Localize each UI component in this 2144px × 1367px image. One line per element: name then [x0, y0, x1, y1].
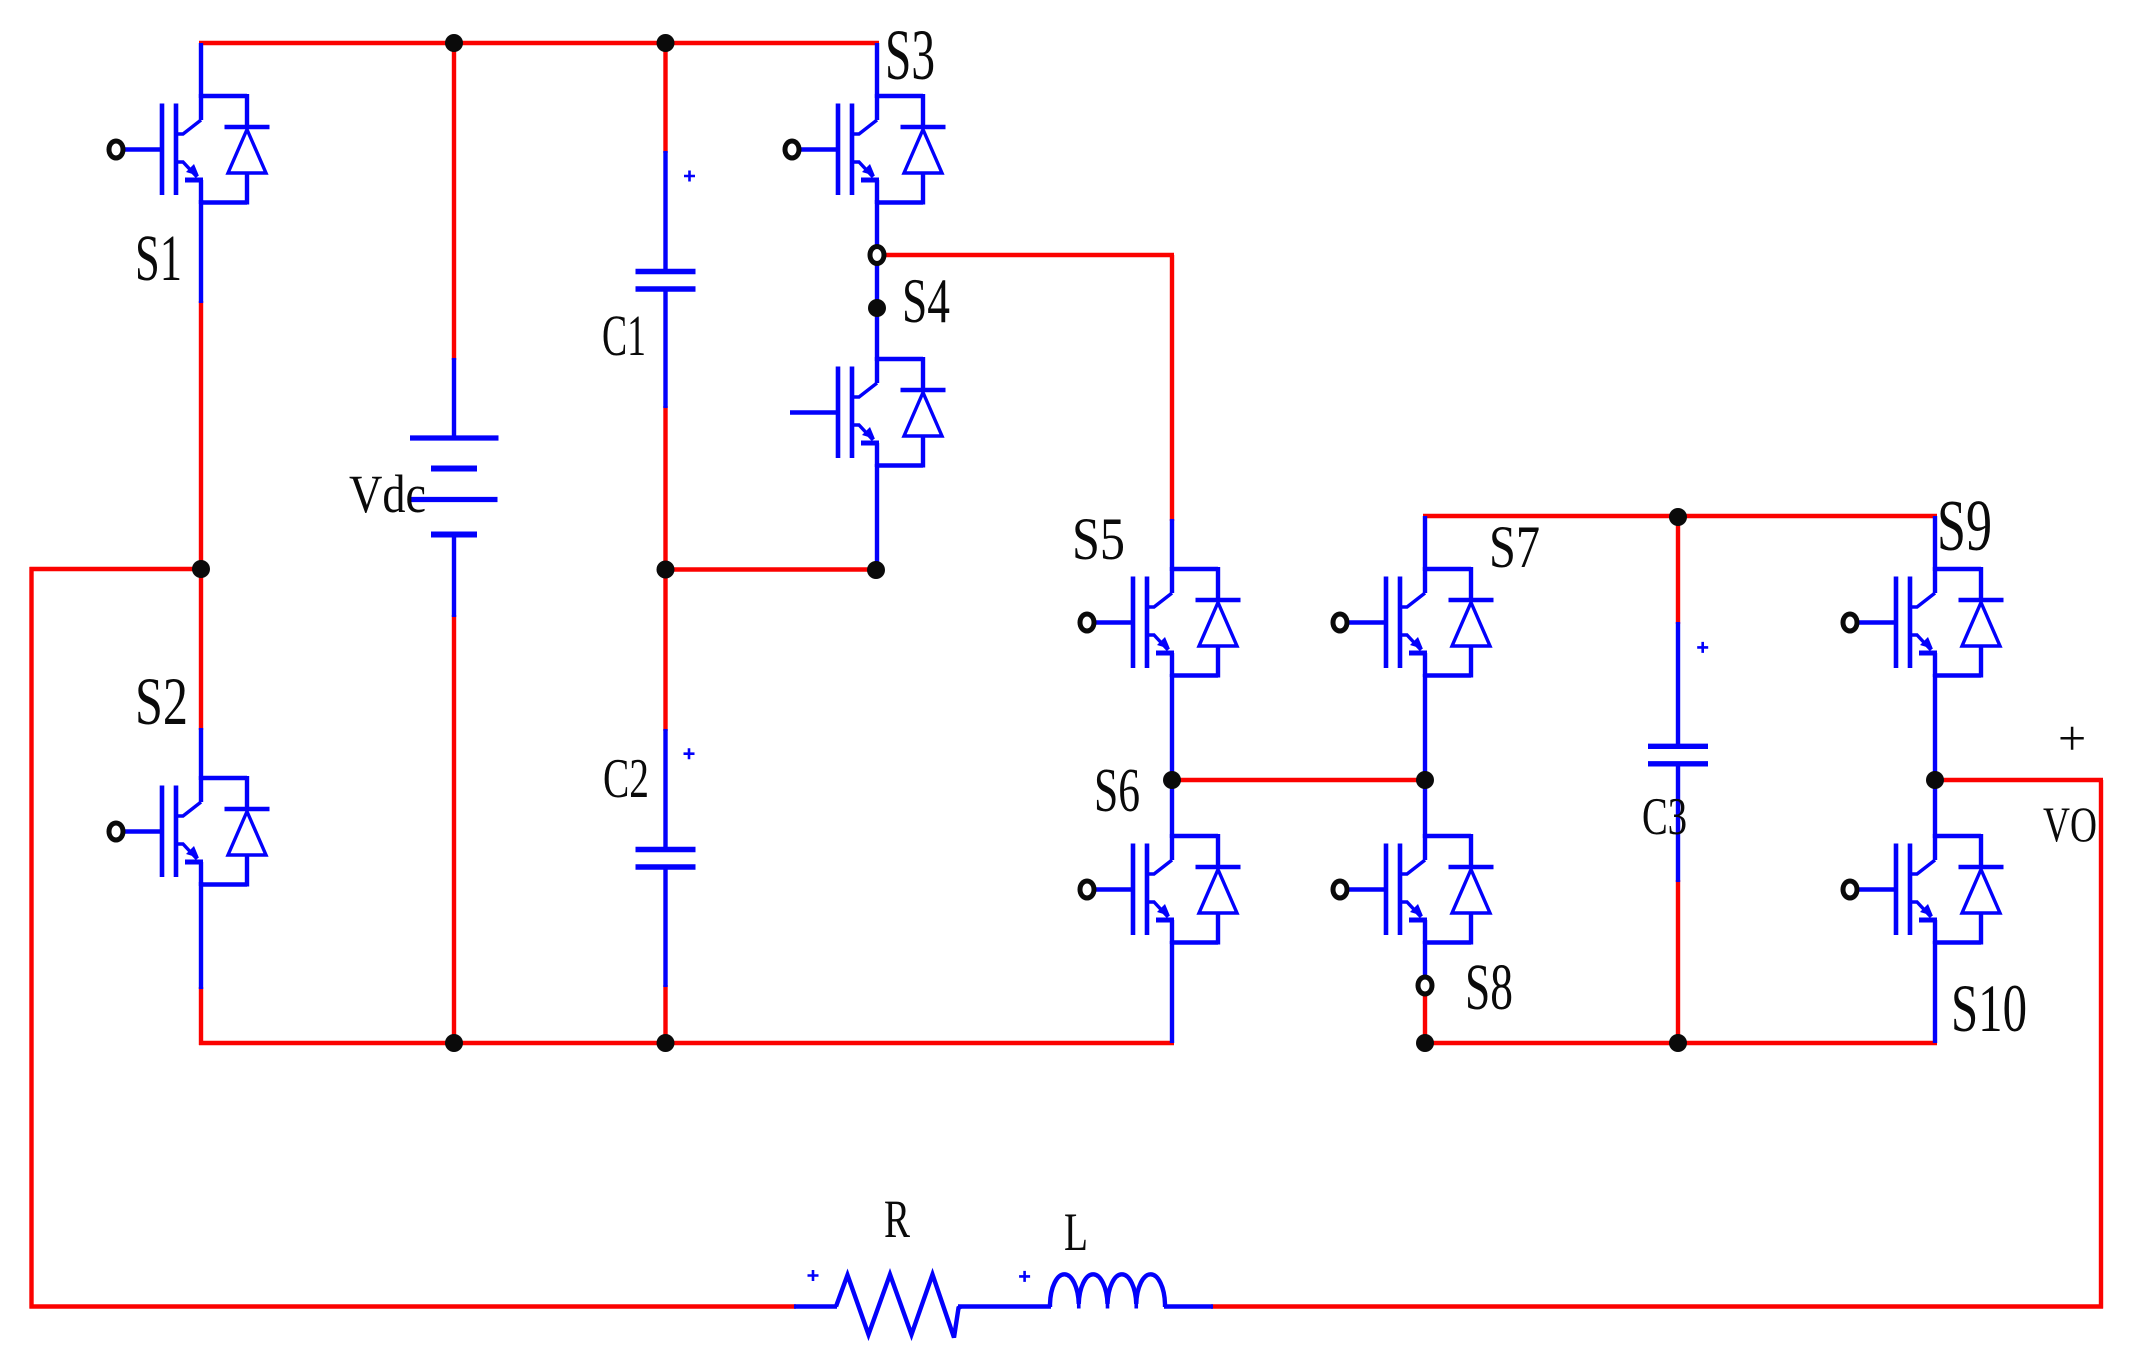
voltage source Vdc (battery) — [410, 438, 499, 535]
wire: S6 collector stub — [1170, 780, 1174, 838]
wire: S8 collector stub — [1423, 780, 1427, 838]
wire: C1 top stub — [663, 151, 667, 273]
svg-text:L: L — [1064, 1202, 1088, 1262]
wire: S1 emitter stub — [199, 200, 203, 303]
wire: S4 emitter to mid bus — [875, 464, 879, 570]
wire: S10 collector stub — [1933, 780, 1937, 838]
wire: S3/S4 node to S5 collector horizontal — [884, 253, 1174, 257]
wire: Vdc branch lower — [452, 615, 456, 1045]
polarity mark C2 — [684, 748, 695, 759]
wire: S5 emitter to stage-2 midpoint — [1170, 674, 1174, 780]
capacitor C3 — [1648, 746, 1708, 764]
wire: S6 emitter to bottom bus — [1170, 941, 1174, 1043]
inductor L (arcs) — [1050, 1274, 1165, 1307]
wire: lead between R and L — [958, 1304, 1051, 1309]
svg-text:S7: S7 — [1489, 514, 1540, 580]
node: top bus / Vdc junction — [445, 34, 463, 52]
wire: C2 branch lower — [663, 985, 667, 1045]
transistor S8 (IGBT with anti-parallel diode) — [1333, 834, 1494, 945]
node: bottom bus 2 / C3 junction — [1669, 1034, 1687, 1052]
svg-text:S1: S1 — [135, 222, 182, 295]
svg-text:S8: S8 — [1465, 951, 1513, 1024]
wire: C3 branch upper — [1676, 516, 1680, 624]
polarity mark L — [1019, 1271, 1030, 1282]
wire: node A to S2 collector — [199, 569, 203, 730]
svg-text:Vdc: Vdc — [349, 464, 426, 524]
wire: S3/S4 node to S5 collector vertical — [1170, 255, 1174, 521]
transistor S4 (IGBT with anti-parallel diode) — [790, 357, 946, 468]
node: bottom bus / C2 junction — [657, 1034, 675, 1052]
svg-text:C3: C3 — [1642, 788, 1687, 846]
wire: C3 bottom stub — [1676, 763, 1680, 883]
wire: right output rail vertical — [2099, 780, 2103, 1309]
wire: S10 emitter to bottom bus — [1933, 941, 1937, 1043]
wire: bottom bus of stage 2 — [1423, 1041, 1937, 1045]
wire: S5 collector stub — [1170, 519, 1174, 571]
transistor S3 (IGBT with anti-parallel diode) — [785, 94, 946, 205]
wire: output node to + terminal — [1935, 778, 2103, 782]
transistor S9 (IGBT with anti-parallel diode) — [1843, 567, 2004, 678]
svg-text:C1: C1 — [602, 303, 646, 368]
node: bottom bus / Vdc junction — [445, 1034, 463, 1052]
node: stage-2 midpoint at S8 — [1416, 771, 1434, 789]
wire: S7 emitter to stage-2 midpoint — [1423, 674, 1427, 780]
wire: S3 emitter to node B — [875, 200, 879, 249]
wire: S8 terminal to bottom bus — [1423, 993, 1427, 1045]
wire: S2 emitter to bottom bus — [199, 987, 203, 1045]
svg-text:R: R — [884, 1189, 910, 1249]
polarity mark C1 — [684, 171, 695, 182]
resistor R (zigzag) — [836, 1275, 961, 1338]
svg-text:S4: S4 — [902, 265, 950, 336]
wire: left output rail vertical — [29, 567, 33, 1309]
svg-text:C2: C2 — [603, 748, 649, 810]
wire: C3 branch lower — [1676, 880, 1680, 1045]
wire: top bus of stage 2 (S7 to S9) — [1423, 514, 1937, 518]
wire: node B to S4 collector — [875, 261, 879, 361]
wire: C2 bottom stub — [663, 865, 667, 987]
wire: S8 emitter to terminal — [1423, 941, 1427, 979]
capacitor C1 — [636, 272, 696, 290]
transistor S10 (IGBT with anti-parallel diode) — [1843, 834, 2004, 945]
wire: bottom output rail right (from load L) — [1211, 1304, 2103, 1308]
svg-text:S10: S10 — [1951, 970, 2027, 1046]
svg-text:+: + — [2058, 710, 2086, 766]
wire: S1 emitter to node A — [199, 301, 203, 569]
transistor S6 (IGBT with anti-parallel diode) — [1080, 834, 1241, 945]
inductor L inner dips — [1079, 1297, 1137, 1309]
node: S8 terminal circle — [1418, 977, 1432, 994]
node B: S3-S4 midpoint terminal — [870, 246, 884, 263]
node: stage-2 midpoint at S6 — [1163, 771, 1181, 789]
wire: S2 emitter stub — [199, 882, 203, 989]
wire: load lead before R — [794, 1304, 837, 1309]
node: top bus 2 / C3 junction — [1669, 508, 1687, 526]
node: bottom bus 2 / S8 junction — [1416, 1034, 1434, 1052]
svg-text:S5: S5 — [1072, 506, 1125, 572]
wire: S3 collector stub — [875, 43, 879, 98]
svg-text:S3: S3 — [885, 15, 935, 95]
wire: Vdc branch upper — [452, 43, 456, 360]
wire: C2 top stub — [663, 729, 667, 852]
wire: bottom bus of stage 1 — [199, 1041, 1174, 1045]
wire: Vdc negative stub — [452, 533, 456, 617]
wire: S1 collector stub — [199, 43, 203, 98]
wire: Vdc positive stub — [452, 358, 456, 440]
svg-text:VO: VO — [2043, 796, 2097, 852]
transistor S7 (IGBT with anti-parallel diode) — [1333, 567, 1494, 678]
node: mid bus / S4 emitter junction — [867, 561, 885, 579]
wire: S9 emitter to output node — [1933, 674, 1937, 780]
node: top bus / C1 junction — [657, 34, 675, 52]
polarity mark R — [808, 1270, 819, 1281]
node: output midpoint at S9-S10 — [1926, 771, 1944, 789]
wire: top DC bus (S1 to S3) — [199, 41, 879, 45]
wire: S2 collector stub — [199, 728, 203, 780]
wire: node A to left output rail — [30, 567, 202, 571]
transistor S1 (IGBT with anti-parallel diode) — [109, 94, 270, 205]
wire: C3 top stub — [1676, 622, 1680, 748]
wire: C1 bottom stub — [663, 287, 667, 408]
svg-text:S9: S9 — [1937, 485, 1992, 566]
node A: S1-S2 midpoint — [192, 560, 210, 578]
capacitor C2 — [636, 850, 696, 868]
wire: load lead after L — [1164, 1304, 1213, 1309]
node: S4 collector junction — [868, 299, 886, 317]
wire: stage-2 midpoint S6 to S8 — [1172, 778, 1425, 782]
wire: S9 collector stub — [1933, 516, 1937, 571]
wire: C1 branch upper — [663, 43, 667, 153]
wire: S7 collector stub — [1423, 516, 1427, 571]
transistor S5 (IGBT with anti-parallel diode) — [1080, 567, 1241, 678]
svg-text:S6: S6 — [1094, 757, 1140, 825]
wire: mid bus C1/C2 node to S4 emitter — [666, 567, 878, 571]
wire: C1-C2 middle branch — [663, 406, 667, 731]
transistor S2 (IGBT with anti-parallel diode) — [109, 776, 270, 887]
node: mid bus / C1-C2 junction — [657, 561, 675, 579]
wire: bottom output rail left (to load R) — [30, 1304, 797, 1308]
polarity mark C3 — [1697, 642, 1708, 653]
svg-text:S2: S2 — [135, 663, 188, 739]
